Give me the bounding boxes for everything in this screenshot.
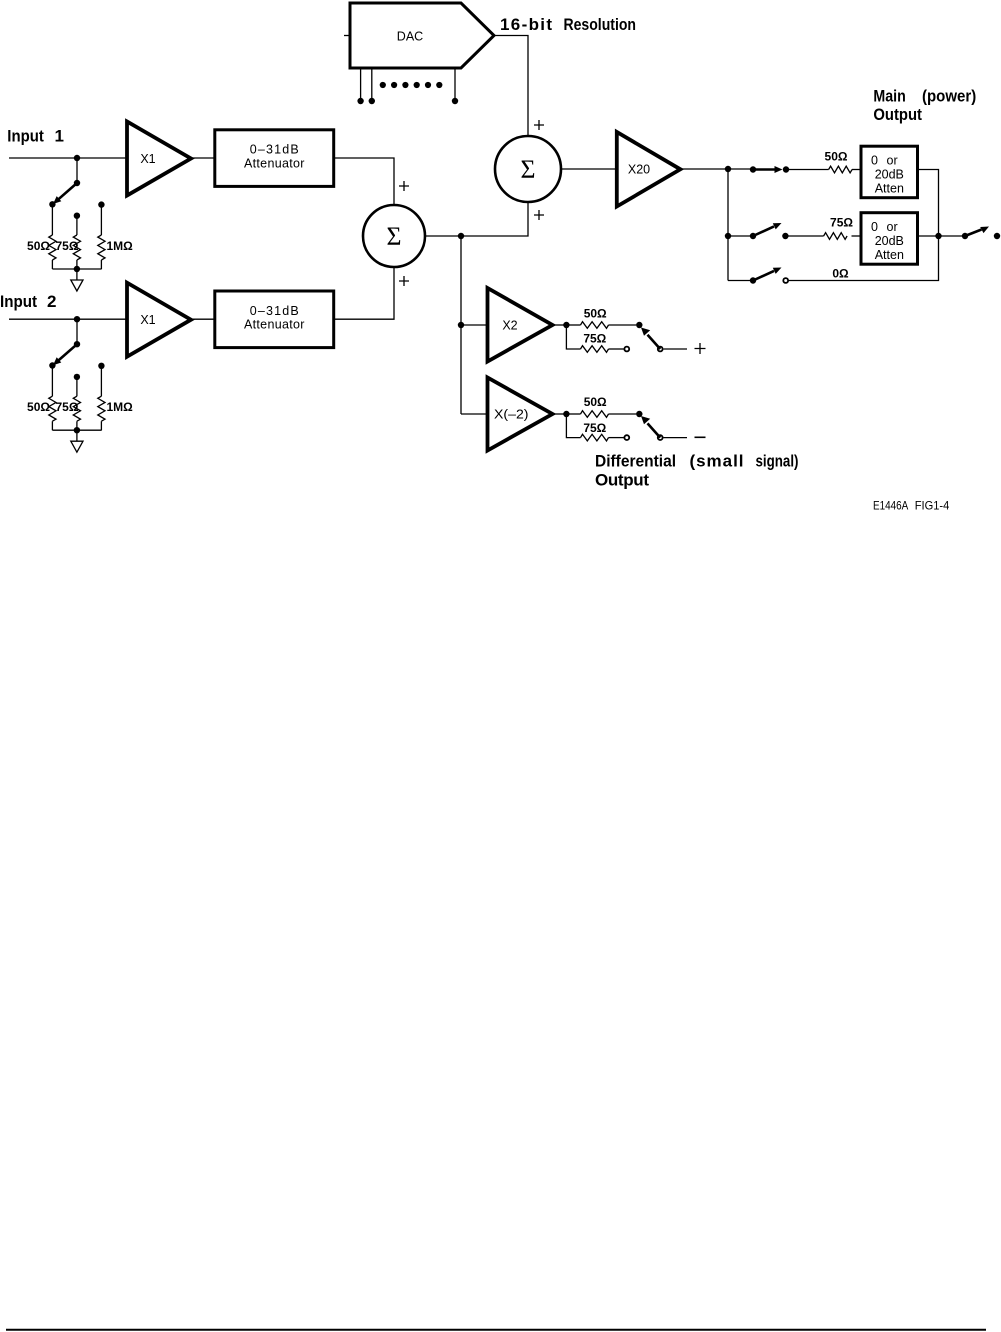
svg-text:X2: X2 xyxy=(502,319,517,333)
svg-text:0: 0 xyxy=(871,153,878,167)
svg-text:50Ω: 50Ω xyxy=(584,395,607,409)
svg-text:Resolution: Resolution xyxy=(564,15,637,34)
svg-text:E1446A: E1446A xyxy=(873,499,908,513)
svg-text:Atten: Atten xyxy=(875,248,904,262)
svg-text:50Ω: 50Ω xyxy=(27,239,50,253)
svg-text:(power): (power) xyxy=(922,87,976,106)
svg-text:75Ω: 75Ω xyxy=(56,239,79,253)
svg-text:Output: Output xyxy=(595,471,649,490)
svg-text:75Ω: 75Ω xyxy=(583,332,606,346)
svg-text:Main: Main xyxy=(873,87,905,106)
svg-text:2: 2 xyxy=(47,292,56,311)
svg-text:50Ω: 50Ω xyxy=(825,150,848,164)
svg-text:FIG1-4: FIG1-4 xyxy=(915,499,950,513)
svg-text:75Ω: 75Ω xyxy=(830,216,853,230)
svg-text:0Ω: 0Ω xyxy=(832,267,849,281)
svg-text:or: or xyxy=(887,220,898,234)
svg-text:1: 1 xyxy=(55,127,64,146)
svg-text:Output: Output xyxy=(873,105,922,124)
svg-text:20dB: 20dB xyxy=(875,168,904,182)
svg-text:X1: X1 xyxy=(140,152,155,166)
svg-text:0–31dB: 0–31dB xyxy=(250,143,299,157)
svg-text:or: or xyxy=(887,153,898,167)
svg-text:50Ω: 50Ω xyxy=(584,307,607,321)
svg-text:1MΩ: 1MΩ xyxy=(107,239,134,253)
svg-text:0: 0 xyxy=(871,220,878,234)
svg-text:Input: Input xyxy=(7,127,44,146)
svg-text:20dB: 20dB xyxy=(875,234,904,248)
svg-text:16-bit: 16-bit xyxy=(500,15,552,34)
svg-text:X(–2): X(–2) xyxy=(494,408,529,422)
svg-text:X20: X20 xyxy=(628,163,650,177)
svg-text:Input: Input xyxy=(0,292,37,311)
svg-text:75Ω: 75Ω xyxy=(583,421,606,435)
svg-text:Σ: Σ xyxy=(521,155,536,184)
svg-text:Differential: Differential xyxy=(595,452,676,471)
svg-text:(small: (small xyxy=(690,452,744,471)
svg-text:Attenuator: Attenuator xyxy=(244,156,305,170)
svg-text:Atten: Atten xyxy=(875,182,904,196)
svg-text:Σ: Σ xyxy=(387,222,402,251)
svg-text:signal): signal) xyxy=(756,452,799,471)
svg-text:DAC: DAC xyxy=(397,30,423,44)
